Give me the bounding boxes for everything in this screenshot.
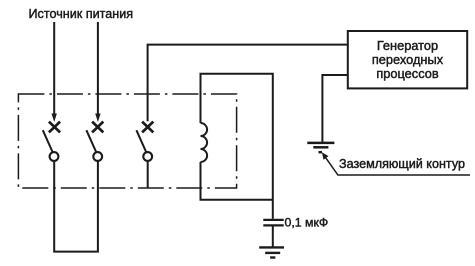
wire: S3 down to enclosure edge [147,161,149,188]
switch S2 circle [93,152,102,161]
switch S1 circle [50,152,59,161]
wire: inductor bottom down and right to capacitor node [201,162,273,200]
callout leader: Заземляющий контур [322,152,470,175]
wire: capacitor to ground [272,225,274,247]
switch S3 blade [136,130,146,151]
ground under capacitor [259,247,284,257]
switch S3 contact X [142,122,153,133]
wire: inductor top up, right, down to capacitor [201,74,273,219]
leader arrow to switch S1 [52,22,57,122]
wire: generator output down to switch S3 [148,45,348,122]
svg-text:0,1 мкФ: 0,1 мкФ [285,216,329,230]
svg-text:переходных: переходных [372,52,444,67]
svg-text:Генератор: Генератор [377,38,438,53]
generator box U1 [348,31,467,88]
switch S2 blade [86,130,96,151]
inductor L1 [201,123,208,162]
ground under generator [307,143,334,152]
svg-text:Источник питания: Источник питания [29,7,134,21]
enclosure dash-dot box [18,94,236,188]
capacitor C1 plates [263,220,283,226]
switch S1 blade [43,130,53,151]
wire: generator ground terminal down [322,75,347,142]
switch S3 circle [143,152,152,161]
generator text [372,38,444,81]
wire: S1 down, U-bottom, up to S2 [54,161,98,252]
svg-text:процессов: процессов [376,66,439,81]
leader arrow to switch S2 [95,22,100,122]
switch S1 contact X [49,122,60,133]
switch S2 contact X [92,122,103,133]
svg-text:Заземляющий контур: Заземляющий контур [339,157,465,171]
